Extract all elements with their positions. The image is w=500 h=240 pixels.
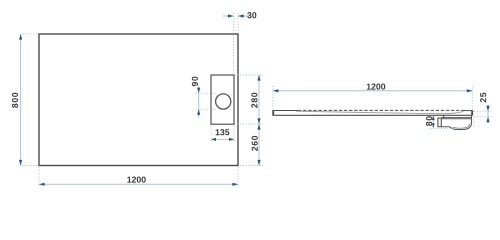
dim 280 arrow down [257, 118, 260, 124]
dim 800 arrow up [19, 34, 22, 40]
side view tray right cap [471, 110, 473, 115]
dim 30 right tail [238, 15, 249, 17]
dim 80 arrow down [432, 123, 435, 128]
extension line dim 135 left [210, 126, 212, 143]
dim 30 arrow right-pointing [228, 14, 234, 17]
dim 260 arrow up [257, 124, 260, 130]
dim 25 arrow up-pointing [486, 117, 489, 123]
extension line dim 135 right [233, 126, 235, 143]
trap body outer bottom [441, 123, 471, 130]
extension line dim 25 top [474, 110, 492, 112]
dim 135 label [216, 129, 230, 135]
drain hole (circle) [216, 94, 231, 109]
dim 135 arrow right [229, 138, 234, 141]
dim 1200 plan arrow right [232, 183, 238, 186]
dim 80 line [432, 116, 434, 128]
dim 90 arrow up-pointing [197, 109, 200, 115]
side view tray top solid right [464, 110, 472, 112]
dim 280 label [251, 93, 257, 108]
extension line dim 90 top [196, 92, 216, 94]
dim 260 arrow down [257, 160, 260, 166]
side view tray top dashed rim [298, 109, 466, 111]
dim 90 label [192, 77, 198, 87]
extension line side 1200 left [272, 86, 274, 110]
dim side 1200 line [273, 90, 473, 92]
under-channel step tick [443, 115, 445, 117]
dim 30 left tail [223, 15, 234, 17]
extension line right of slab vertical [473, 111, 475, 126]
extension line side 1200 right [471, 86, 473, 110]
dim 800 line [20, 34, 22, 166]
extension line dim 25 bottom [474, 116, 492, 118]
side view sloped surface line [296, 111, 464, 114]
dim 800 label [12, 93, 18, 108]
dim 25 label [480, 93, 486, 103]
dim 25 line [487, 105, 489, 124]
trap body inner contour [453, 124, 470, 129]
dim 30 label [247, 12, 256, 18]
dim 135 line [211, 138, 234, 140]
dim 90 line [198, 87, 200, 118]
dim 25 arrow down-pointing [486, 106, 489, 112]
side view tray left cap [272, 110, 274, 115]
extension line for dim 30 right (to tray edge) [237, 13, 239, 33]
dim 1200 plan arrow left [39, 183, 45, 186]
dim 80 arrow up [432, 116, 435, 121]
dim 1200 plan label [127, 177, 145, 183]
side view tray top solid left [273, 110, 298, 112]
dim side 1200 arrow left [273, 89, 279, 92]
dim 260 label [252, 136, 258, 151]
dim 800 arrow down [19, 160, 22, 166]
dim 280 arrow up [257, 75, 260, 81]
dim 1200 plan line [39, 183, 238, 185]
extension line dim 260 bottom [240, 165, 263, 167]
dim 260 line [258, 124, 260, 166]
side view tray bottom line [273, 114, 473, 116]
dim 80 label [426, 116, 432, 126]
extension line dim 90 bottom [196, 108, 216, 110]
extension line bottom-left (dim 800 bottom) [22, 165, 38, 167]
trap flange [438, 118, 441, 127]
trap body top [441, 118, 471, 120]
dim 280 line [258, 75, 260, 124]
extension line dim 280 top [235, 74, 264, 76]
drain cover plate (plan view box) [211, 75, 234, 124]
dim 90 arrow down-pointing [197, 88, 200, 94]
extension line dim 280/260 shared [235, 123, 264, 125]
extension line top-left (dim 800 top) [22, 33, 38, 35]
extension line bottom-left vertical (dim 1200) [38, 167, 40, 186]
dim side 1200 label [367, 84, 385, 90]
extension line bottom-right vertical (dim 1200) [237, 167, 239, 186]
dim 30 arrow left-pointing [238, 14, 244, 17]
tray outline (plan view rectangle) [39, 34, 238, 166]
dim 135 arrow left [211, 138, 216, 141]
extension line for dim 30 left (to drain plate) [233, 13, 235, 74]
dim side 1200 arrow right [467, 89, 473, 92]
under-channel right wall [471, 115, 473, 123]
extension line dim 80 bottom (trap bottom) [430, 127, 462, 129]
under-channel step line [441, 117, 471, 119]
